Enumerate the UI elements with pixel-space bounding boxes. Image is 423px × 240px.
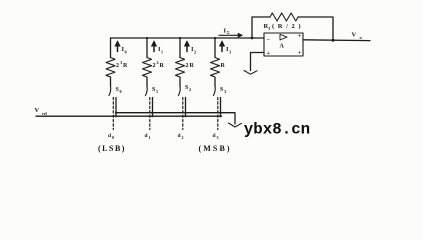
svg-text:0: 0 — [120, 89, 122, 94]
wire op-amp plus input to ground — [251, 53, 265, 71]
svg-text:2: 2 — [182, 135, 184, 140]
wire branch 3 vertical — [214, 38, 216, 86]
svg-text:ybx8.cn: ybx8.cn — [244, 121, 310, 139]
svg-text:d: d — [178, 133, 181, 139]
resistor 2 R — [176, 58, 185, 77]
label S1 — [152, 87, 158, 94]
svg-text:1: 1 — [156, 89, 158, 94]
label d3 — [213, 133, 219, 140]
wire branch 2 vertical — [179, 38, 181, 86]
svg-text:R: R — [221, 63, 226, 69]
resistor 2^2 R — [143, 58, 152, 77]
svg-text:2: 2 — [157, 60, 159, 65]
svg-text:2: 2 — [153, 63, 156, 69]
node junction dots on top rail — [146, 37, 216, 39]
resistor R — [211, 58, 220, 77]
svg-text:o: o — [360, 35, 363, 40]
resistor Rf (R/2) — [270, 13, 298, 21]
svg-text:+: + — [267, 51, 271, 57]
current arrow I0 — [115, 41, 120, 52]
current arrow I3 — [219, 41, 224, 52]
node output junction — [332, 39, 335, 42]
switch S0 lever — [109, 86, 111, 96]
label S0 — [116, 87, 122, 94]
label 2^3 R — [116, 60, 128, 69]
wire dashed control line d3 — [217, 98, 219, 130]
svg-text:1: 1 — [161, 50, 163, 55]
wire dashed control line d0 — [112, 98, 114, 130]
op-amp triangle — [280, 34, 287, 40]
wire branch 1 vertical — [146, 38, 148, 86]
label d2 — [178, 133, 184, 140]
label 2R — [186, 63, 195, 69]
svg-text:(MSB): (MSB) — [199, 144, 232, 153]
svg-text:3: 3 — [217, 135, 219, 140]
wire switch S1 bottom contact — [152, 98, 154, 117]
label 2^2 R — [153, 60, 165, 69]
wire switch S3 bottom contact — [220, 98, 222, 117]
current arrow I2 — [184, 41, 189, 52]
svg-text:Σ: Σ — [227, 31, 230, 35]
label R — [221, 63, 226, 69]
wire switch S2 bottom contact — [185, 98, 187, 117]
wire dashed control line d2 — [182, 98, 184, 130]
svg-text:0: 0 — [125, 50, 127, 55]
svg-text:( R / 2 ): ( R / 2 ) — [272, 23, 302, 30]
svg-text:f: f — [269, 26, 271, 31]
svg-text:ref: ref — [42, 111, 47, 116]
svg-text:R: R — [123, 63, 128, 69]
label I2 — [191, 46, 196, 55]
svg-text:R: R — [160, 63, 165, 69]
label I3 — [226, 46, 231, 55]
label S3 — [220, 87, 226, 94]
svg-text:2: 2 — [116, 63, 119, 69]
svg-text:2: 2 — [189, 87, 191, 92]
current arrow I sigma — [219, 33, 243, 37]
resistor 2^3 R — [106, 58, 115, 77]
svg-text:R: R — [190, 63, 195, 69]
svg-text:A: A — [280, 44, 285, 50]
label I0 — [122, 46, 127, 55]
label Vref — [35, 107, 48, 116]
svg-text:3: 3 — [120, 60, 122, 65]
wire ground bus — [116, 113, 235, 124]
svg-text:2: 2 — [194, 50, 196, 55]
wire top summing rail — [111, 37, 265, 39]
svg-text:−: − — [267, 38, 271, 44]
wire switch S0 bottom contact — [115, 98, 117, 117]
label d1 — [145, 133, 151, 140]
svg-text:d: d — [108, 133, 111, 139]
svg-text:V: V — [352, 31, 357, 38]
node junction dots on bottom rails — [115, 112, 222, 118]
label d0 — [108, 133, 114, 140]
switch S3 lever — [213, 86, 215, 96]
wire feedback right — [298, 17, 333, 40]
wire feedback up — [252, 17, 270, 38]
node summing junction — [251, 37, 254, 40]
label I1 — [158, 46, 163, 55]
op-amp pin dots — [299, 35, 301, 54]
svg-text:(LSB): (LSB) — [98, 144, 126, 153]
op-amp U1 box — [264, 33, 303, 56]
label S2 — [185, 85, 191, 92]
wire branch 0 vertical — [110, 38, 112, 86]
label Rf (R/2) — [264, 23, 302, 31]
svg-text:d: d — [145, 133, 148, 139]
svg-text:3: 3 — [224, 89, 226, 94]
svg-text:2: 2 — [186, 63, 189, 69]
svg-text:1: 1 — [149, 135, 151, 140]
switch S1 lever — [145, 86, 147, 96]
wire op-amp output — [303, 39, 370, 42]
current arrow I1 — [151, 41, 156, 52]
wire dashed control line d1 — [149, 98, 151, 130]
svg-text:d: d — [213, 133, 216, 139]
svg-text:0: 0 — [112, 135, 114, 140]
label Vo — [352, 31, 363, 40]
svg-text:3: 3 — [229, 50, 231, 55]
ground symbol right — [229, 123, 242, 127]
svg-text:V: V — [35, 107, 40, 114]
ground symbol op-amp — [244, 71, 257, 75]
switch S2 lever — [178, 86, 180, 96]
wire Vref rail — [36, 115, 222, 117]
label I sigma — [224, 27, 231, 35]
